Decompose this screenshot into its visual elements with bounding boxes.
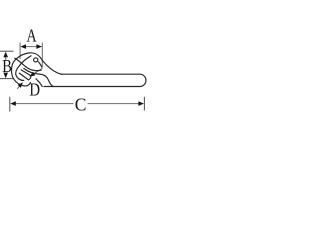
svg-text:A: A xyxy=(27,26,37,46)
svg-text:C: C xyxy=(75,94,87,115)
svg-text:B: B xyxy=(2,58,12,77)
svg-text:D: D xyxy=(29,80,40,99)
